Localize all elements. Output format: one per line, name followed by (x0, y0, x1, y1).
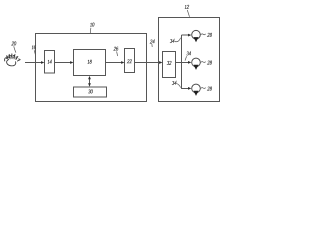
wire: double arrow between block 18 and block 30 (88, 76, 91, 87)
block label 18 (88, 60, 92, 63)
block: driver 32 (163, 52, 176, 78)
label 28 (lamp 1) with squiggle leader (201, 33, 212, 36)
wire: gesture input 16 into block 14 (25, 61, 44, 64)
block: system unit 10 outer box (36, 34, 147, 102)
label 28 (lamp 2) with squiggle leader (201, 61, 212, 64)
block: lighting device 12 outer box (159, 18, 220, 102)
label 34 (top) with leader (170, 38, 181, 43)
label 34 (bottom) with leader (172, 81, 181, 87)
hand gesture 20 (4, 53, 21, 67)
block label 30 (88, 90, 93, 93)
label 20 with leader (12, 42, 17, 53)
label 12 with leader (185, 5, 190, 17)
label 26 with leader (114, 47, 119, 56)
block: transmitter 22 (125, 49, 135, 73)
block label 14 (48, 60, 53, 63)
lamp 3 (192, 84, 201, 96)
wire: block 22 to block 32, link 24 (135, 61, 163, 64)
wire: block 18 to block 22, signal 26 (106, 61, 125, 64)
label 10 with leader (90, 23, 94, 33)
lamp 2 (192, 58, 201, 70)
wire: branch 34 to lamp 1 (182, 34, 192, 37)
block label 32 (167, 61, 172, 64)
wire: bus from block 32 feeding lamps (176, 35, 183, 89)
lamp 1 (192, 30, 201, 42)
label 34 (middle) with leader (185, 52, 191, 61)
wire: branch 34 to lamp 3 (182, 87, 192, 90)
block: receiver 14 (45, 51, 55, 74)
label 24 with leader (150, 40, 155, 47)
label 16 with leader (32, 46, 36, 56)
wire: branch 34 to lamp 2 (182, 61, 192, 64)
label 28 (lamp 3) with squiggle leader (201, 87, 212, 90)
block: memory 30 (74, 87, 107, 97)
wire: block 14 to block 18 (55, 61, 74, 64)
block label 22 (127, 60, 132, 63)
block: processor 18 (74, 50, 106, 76)
